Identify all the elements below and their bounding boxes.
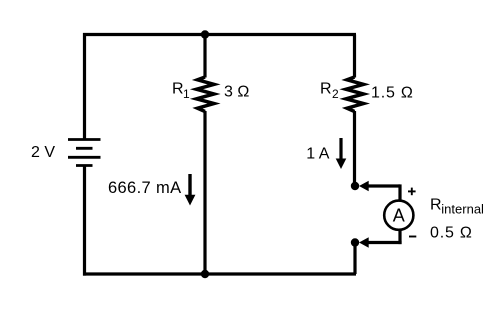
current arrow 666.7 mA (down) <box>185 174 196 206</box>
svg-text:R: R <box>172 80 184 97</box>
wire R1 branch top lead <box>203 35 206 78</box>
node dot ammeter bottom <box>351 238 359 246</box>
svg-text:1.5 Ω: 1.5 Ω <box>371 85 414 102</box>
svg-text:0.5 Ω: 0.5 Ω <box>430 225 473 242</box>
wire left vertical lower (battery to bottom) <box>83 166 86 276</box>
svg-text:R: R <box>430 196 442 213</box>
battery 2V <box>68 140 101 166</box>
wire R1 branch bottom lead <box>203 111 206 274</box>
wire ammeter right vertical lower <box>398 230 401 244</box>
wire bottom horizontal <box>83 272 356 275</box>
svg-text:2: 2 <box>332 87 339 101</box>
svg-text:internal: internal <box>441 202 484 217</box>
wire R2 branch top lead <box>353 35 356 78</box>
node dot bottom (R1 bottom) <box>201 270 209 278</box>
wire ammeter top horizontal <box>366 184 400 187</box>
node dot top (R1 top) <box>201 30 209 38</box>
wire R2 branch lower lead to node <box>353 111 356 186</box>
wire ammeter bottom horizontal <box>366 241 402 244</box>
arrowhead into top node (points left) <box>359 181 369 191</box>
ammeter U1 circle <box>384 201 413 230</box>
minus sign <box>409 236 416 238</box>
current arrow 1 A (down) <box>336 138 347 169</box>
svg-text:R: R <box>320 80 332 97</box>
svg-text:1: 1 <box>183 87 190 101</box>
node dot ammeter top <box>351 182 359 190</box>
svg-text:666.7 mA: 666.7 mA <box>108 179 181 197</box>
svg-text:2 V: 2 V <box>31 144 55 161</box>
wire node to bottom rail <box>353 243 356 275</box>
svg-text:3 Ω: 3 Ω <box>224 84 249 101</box>
resistor R2 zigzag <box>346 77 364 112</box>
plus sign <box>408 188 416 196</box>
arrowhead into bottom node (points left) <box>359 237 369 247</box>
svg-text:A: A <box>393 206 405 226</box>
resistor R1 zigzag <box>197 77 215 112</box>
wire left vertical upper (to battery) <box>83 33 86 140</box>
wire top horizontal <box>83 33 356 36</box>
wire ammeter right vertical upper <box>398 184 401 201</box>
svg-text:1 A: 1 A <box>306 146 329 163</box>
